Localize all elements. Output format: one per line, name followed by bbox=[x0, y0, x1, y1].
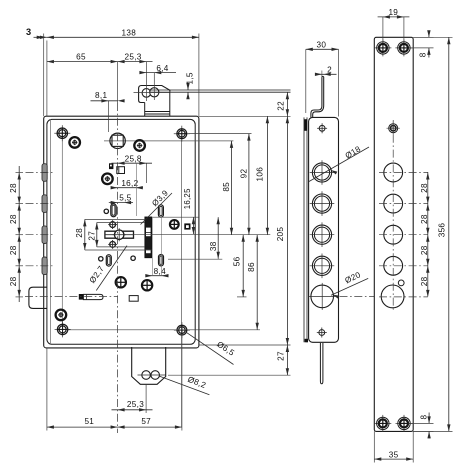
svg-text:3: 3 bbox=[26, 27, 31, 37]
svg-text:28: 28 bbox=[9, 245, 18, 255]
svg-text:8: 8 bbox=[419, 52, 428, 57]
svg-text:35: 35 bbox=[389, 450, 399, 459]
svg-text:28: 28 bbox=[9, 214, 18, 224]
svg-text:86: 86 bbox=[247, 262, 256, 272]
svg-text:5,5: 5,5 bbox=[119, 193, 131, 202]
svg-text:56: 56 bbox=[232, 256, 241, 266]
svg-text:85: 85 bbox=[222, 182, 231, 192]
svg-text:8,4: 8,4 bbox=[154, 267, 166, 276]
svg-text:19: 19 bbox=[388, 8, 398, 17]
svg-text:30: 30 bbox=[317, 41, 327, 50]
svg-text:16,25: 16,25 bbox=[183, 188, 192, 209]
svg-text:51: 51 bbox=[84, 417, 94, 426]
svg-text:57: 57 bbox=[141, 417, 151, 426]
svg-text:28: 28 bbox=[420, 214, 429, 224]
svg-text:2: 2 bbox=[327, 66, 332, 75]
svg-text:28: 28 bbox=[420, 245, 429, 255]
svg-text:27: 27 bbox=[88, 231, 97, 241]
svg-text:6,4: 6,4 bbox=[156, 64, 168, 73]
svg-text:28: 28 bbox=[75, 228, 84, 238]
svg-text:205: 205 bbox=[276, 227, 285, 242]
svg-text:65: 65 bbox=[76, 53, 86, 62]
svg-text:8,1: 8,1 bbox=[95, 91, 107, 100]
svg-text:8: 8 bbox=[420, 414, 429, 419]
svg-text:28: 28 bbox=[9, 276, 18, 286]
svg-text:28: 28 bbox=[420, 276, 429, 286]
svg-text:106: 106 bbox=[255, 167, 264, 182]
svg-text:25,3: 25,3 bbox=[125, 53, 142, 62]
svg-text:25,8: 25,8 bbox=[125, 154, 142, 163]
svg-text:22: 22 bbox=[276, 101, 285, 111]
svg-text:138: 138 bbox=[122, 29, 137, 38]
svg-text:28: 28 bbox=[9, 183, 18, 193]
svg-text:16,2: 16,2 bbox=[121, 179, 138, 188]
svg-text:356: 356 bbox=[437, 223, 446, 238]
svg-text:38: 38 bbox=[209, 241, 218, 251]
svg-text:92: 92 bbox=[240, 169, 249, 179]
svg-text:25,3: 25,3 bbox=[127, 400, 144, 409]
svg-text:28: 28 bbox=[420, 183, 429, 193]
svg-text:1,5: 1,5 bbox=[185, 72, 194, 84]
svg-text:27: 27 bbox=[276, 351, 285, 361]
